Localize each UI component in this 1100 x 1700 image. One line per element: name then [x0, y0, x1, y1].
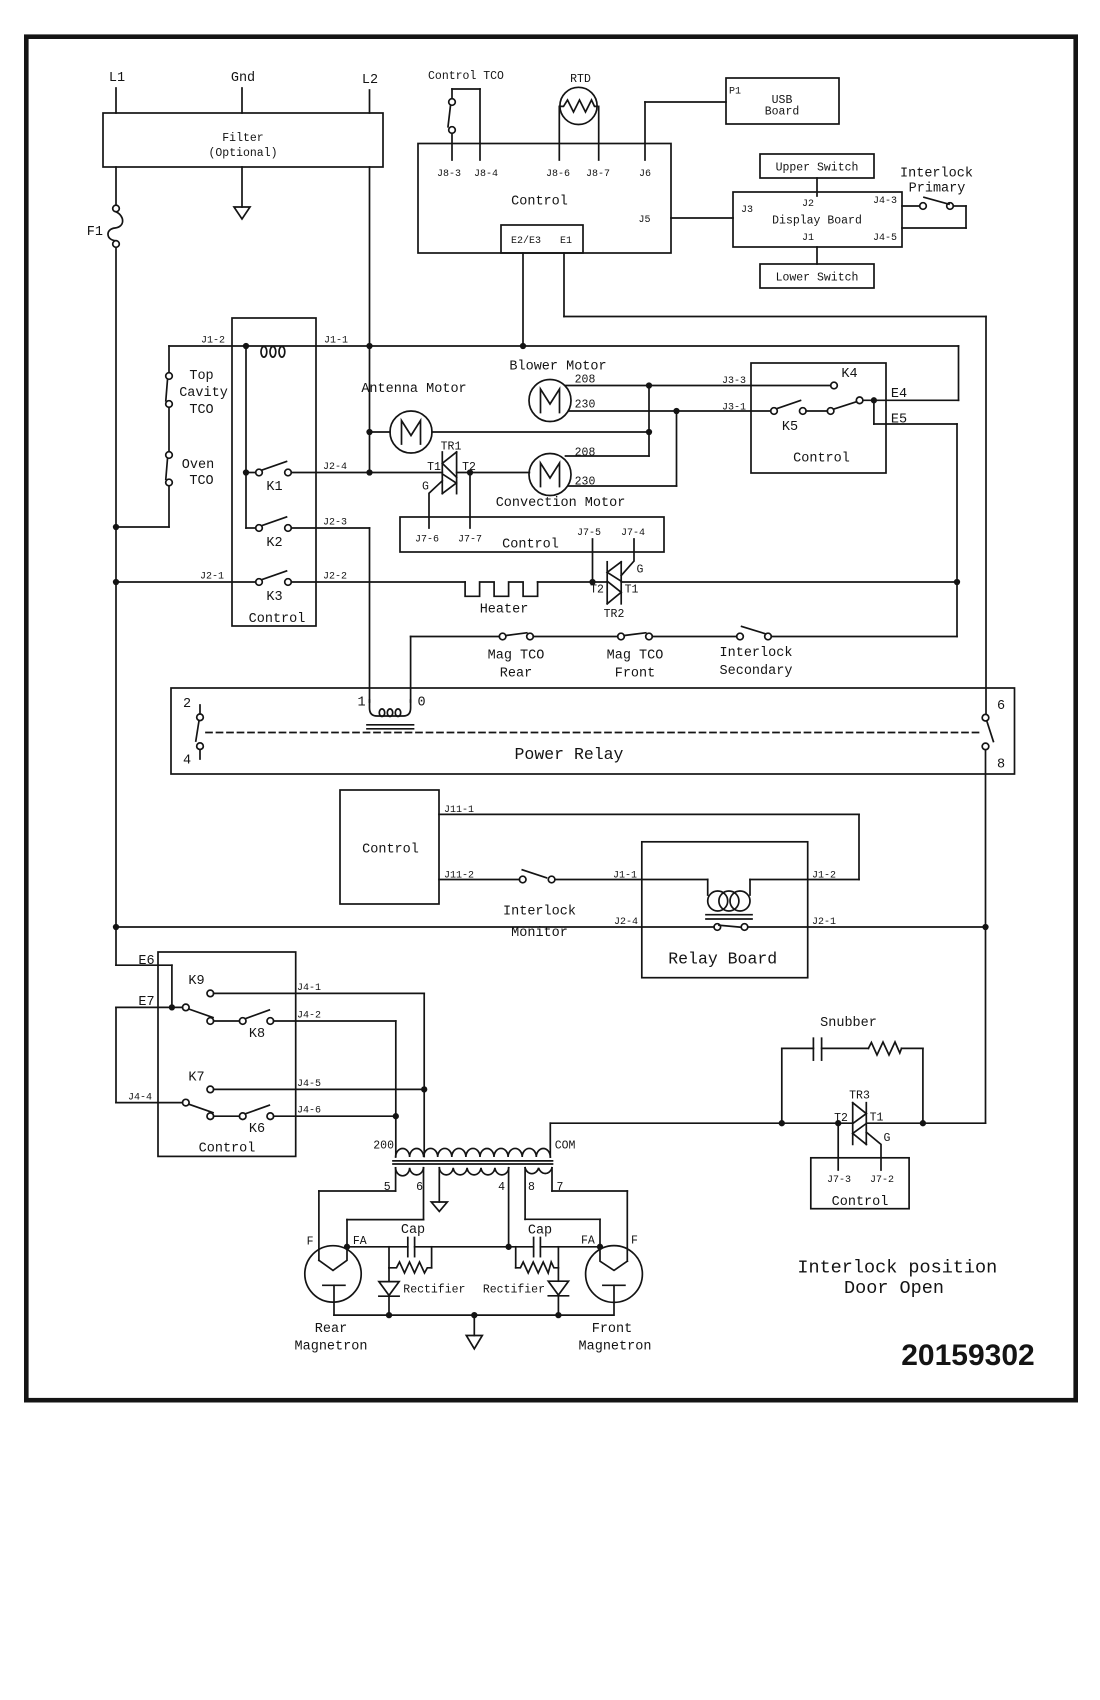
wire blower 208: [566, 374, 650, 387]
power relay box: [171, 688, 1015, 774]
wire relay coil pin 0 to mag TCO row: [411, 637, 500, 703]
bleed resistor (rear): [389, 1247, 432, 1273]
svg-text:Interlock: Interlock: [900, 167, 973, 182]
wire upper switch to display board: [816, 178, 818, 196]
wire E1 to power relay pin 6: [564, 253, 986, 714]
interlock monitor switch: [503, 870, 576, 941]
svg-text:Door Open: Door Open: [844, 1278, 944, 1299]
svg-text:Board: Board: [765, 106, 800, 119]
svg-text:230: 230: [575, 399, 596, 412]
wire J7-3: [837, 1123, 839, 1170]
node L2: [362, 73, 378, 113]
wire J4-1: [214, 993, 425, 1156]
snubber network: [782, 1016, 923, 1123]
junction dot snubber left: [780, 1121, 785, 1126]
wire TR3 T1 to pin8 net: [866, 1122, 985, 1124]
svg-text:K8: K8: [249, 1027, 265, 1042]
wire FA bus right: [540, 1246, 600, 1248]
svg-text:Control: Control: [793, 452, 850, 467]
relay contact K5: [771, 401, 806, 436]
junction dot rectifier rear on bus: [387, 1313, 392, 1318]
svg-text:200: 200: [373, 1140, 394, 1153]
svg-text:Relay Board: Relay Board: [668, 950, 777, 969]
power relay contact 2: [183, 697, 203, 721]
svg-text:E6: E6: [138, 954, 154, 969]
svg-text:J7-6: J7-6: [415, 535, 439, 546]
svg-text:J1-1: J1-1: [324, 336, 348, 347]
relay board primary coil: [708, 880, 750, 912]
wire relay board J1-2: [750, 879, 859, 881]
thermostat Mag TCO Rear: [488, 633, 545, 682]
junction dot J7-7 tap: [468, 470, 473, 475]
svg-text:E4: E4: [891, 387, 907, 402]
svg-text:F: F: [631, 1235, 638, 1248]
svg-text:J7-2: J7-2: [870, 1175, 894, 1186]
convection motor: [496, 454, 626, 512]
control box K6-K9: [158, 952, 296, 1157]
wire FA bus mid: [415, 1246, 534, 1248]
svg-text:TR3: TR3: [849, 1090, 870, 1103]
wire J2-2 to heater: [291, 581, 465, 583]
relay contact K8: [207, 1010, 274, 1042]
display board box: [733, 192, 902, 247]
wire J2-4 from L1: [116, 926, 714, 928]
svg-text:Control TCO: Control TCO: [428, 70, 504, 83]
relay contact K7: [188, 1071, 213, 1093]
rear magnetron: [295, 1235, 368, 1355]
svg-text:J3-1: J3-1: [722, 403, 746, 414]
svg-text:J3-3: J3-3: [722, 376, 746, 387]
USB board box: [726, 78, 839, 124]
border frame: [26, 37, 1075, 1401]
svg-text:J3: J3: [741, 205, 753, 216]
upper switch box: [760, 154, 874, 178]
junction dot E4/E5: [872, 398, 877, 403]
svg-text:Cavity: Cavity: [179, 386, 228, 401]
svg-text:FA: FA: [581, 1235, 595, 1248]
svg-text:Upper Switch: Upper Switch: [776, 162, 859, 175]
wire pin 5 to rear F: [319, 1168, 396, 1261]
wire TR2 T1 output: [621, 581, 957, 583]
wire J2-1 to pin 8 net: [748, 926, 986, 928]
interlock secondary switch: [720, 626, 793, 679]
cathode bus bottom: [334, 1314, 614, 1316]
wire E2/E3 down to J1-1 net: [522, 253, 524, 346]
svg-text:Interlock: Interlock: [720, 646, 793, 661]
svg-text:J2-3: J2-3: [323, 518, 347, 529]
svg-text:L1: L1: [109, 71, 125, 86]
svg-text:Antenna Motor: Antenna Motor: [361, 382, 466, 397]
svg-text:G: G: [884, 1132, 891, 1145]
oven TCO: [166, 452, 215, 489]
relay contact K6: [207, 1105, 274, 1137]
junction dot rear FA: [345, 1245, 350, 1250]
svg-text:F1: F1: [87, 225, 103, 240]
HV transformer secondary winding gnd-4: [439, 1168, 509, 1175]
control box K1-K3: [232, 318, 316, 627]
power relay contact 8: [982, 721, 1005, 773]
HV transformer core: [393, 1161, 553, 1164]
svg-text:Filter: Filter: [222, 132, 263, 145]
svg-text:Control: Control: [249, 612, 306, 627]
svg-text:Control: Control: [199, 1142, 256, 1157]
svg-text:J1-2: J1-2: [812, 871, 836, 882]
wire J2-3 to power relay coil pin 1: [291, 528, 369, 702]
relay board contact: [714, 924, 748, 931]
junction dot 208 bus top: [647, 383, 652, 388]
svg-text:J1: J1: [802, 233, 814, 244]
svg-text:P1: P1: [729, 87, 741, 98]
power relay contact 4: [183, 721, 203, 769]
svg-text:6: 6: [416, 1181, 423, 1194]
wire blower 230: [569, 399, 677, 412]
svg-text:7: 7: [557, 1181, 564, 1194]
svg-text:TR2: TR2: [604, 608, 625, 621]
svg-text:K5: K5: [782, 420, 798, 435]
power relay dashed link: [206, 732, 981, 734]
triac TR3: [834, 1090, 890, 1146]
svg-text:J7-3: J7-3: [827, 1175, 851, 1186]
svg-text:J5: J5: [638, 215, 650, 226]
svg-text:Rear: Rear: [315, 1322, 347, 1337]
svg-text:J2-4: J2-4: [323, 462, 347, 473]
svg-text:Front: Front: [615, 667, 656, 682]
wire E7: [116, 995, 183, 1010]
control box K4/K5: [751, 363, 886, 473]
svg-text:Rear: Rear: [500, 667, 532, 682]
junction dot L1/TCO: [114, 525, 119, 530]
svg-text:J2-1: J2-1: [200, 572, 224, 583]
wire E4: [863, 387, 959, 402]
svg-text:Monitor: Monitor: [511, 926, 568, 941]
svg-text:J4-5: J4-5: [873, 233, 897, 244]
junction dot pin8/J2-1: [983, 925, 988, 930]
front magnetron: [579, 1235, 652, 1355]
lower switch box: [760, 264, 874, 288]
wire J4-5: [214, 1088, 425, 1090]
svg-text:K7: K7: [188, 1071, 204, 1086]
svg-text:Mag TCO: Mag TCO: [607, 649, 664, 664]
svg-text:J7-7: J7-7: [458, 535, 482, 546]
junction dot front FA: [598, 1245, 603, 1250]
svg-text:Cap: Cap: [528, 1224, 552, 1239]
relay contact K4: [827, 367, 863, 414]
svg-text:230: 230: [575, 476, 596, 489]
junction dot rectifier front on bus: [556, 1313, 561, 1318]
junction dot J7-3: [836, 1121, 841, 1126]
HV transformer filament winding 8-7: [525, 1168, 552, 1174]
svg-text:(Optional): (Optional): [208, 147, 277, 160]
svg-text:Display Board: Display Board: [772, 215, 862, 228]
svg-text:J8-6: J8-6: [546, 169, 570, 180]
capacitor Cap (front): [528, 1224, 552, 1257]
wire coil to K1/K2 ladder: [245, 346, 247, 528]
wire J6 to USB board: [645, 102, 726, 160]
svg-text:Magnetron: Magnetron: [295, 1340, 368, 1355]
relay coil K (in control box): [261, 347, 285, 358]
svg-text:T1: T1: [625, 584, 639, 597]
svg-text:J7-5: J7-5: [577, 528, 601, 539]
svg-text:208: 208: [575, 447, 596, 460]
wire L2 vertical to J2-4: [369, 167, 371, 473]
svg-text:Convection Motor: Convection Motor: [496, 496, 626, 511]
svg-text:K3: K3: [266, 590, 282, 605]
fuse F1: [87, 205, 123, 247]
control board box (top): [418, 144, 671, 254]
ground symbol bottom: [466, 1315, 482, 1349]
wire FA bus left: [347, 1246, 408, 1248]
junction dot ground on bus: [472, 1313, 477, 1318]
wire J3-1: [677, 410, 771, 412]
svg-text:TCO: TCO: [189, 474, 213, 489]
svg-text:Secondary: Secondary: [720, 664, 793, 679]
junction dot L2/J1-1: [367, 344, 372, 349]
svg-text:K9: K9: [188, 974, 204, 989]
wire pin 8 down to COM: [985, 750, 987, 1123]
svg-text:8: 8: [528, 1181, 535, 1194]
junction dot K1 ladder: [244, 470, 249, 475]
svg-text:5: 5: [384, 1181, 391, 1194]
svg-text:RTD: RTD: [570, 73, 591, 86]
power relay coil: [370, 700, 411, 717]
svg-text:Control: Control: [502, 538, 559, 553]
wire J4-6: [274, 1115, 396, 1117]
wire TR3 gate to J7-2: [866, 1132, 881, 1170]
triac TR2: [590, 562, 643, 621]
connector E2/E3 E1 sub-box: [501, 225, 583, 253]
wire J7-7: [469, 473, 471, 529]
svg-text:J1-1: J1-1: [613, 871, 637, 882]
wire between TCOs: [533, 636, 617, 638]
svg-text:Front: Front: [592, 1322, 633, 1337]
svg-text:J2-2: J2-2: [323, 572, 347, 583]
svg-text:E5: E5: [891, 413, 907, 428]
rectifier (front): [483, 1247, 569, 1315]
svg-text:E2/E3: E2/E3: [511, 235, 541, 247]
svg-text:COM: COM: [555, 1140, 576, 1153]
wire convection 230: [569, 476, 677, 489]
svg-text:Control: Control: [511, 195, 568, 210]
relay contact K3: [256, 571, 292, 605]
vertical 208 bus: [648, 386, 650, 457]
svg-text:Gnd: Gnd: [231, 71, 255, 86]
wire antenna motor right: [432, 431, 649, 433]
svg-text:J7-4: J7-4: [621, 528, 645, 539]
junction dot L1/J2-4 relay board: [114, 925, 119, 930]
svg-text:Mag TCO: Mag TCO: [488, 649, 545, 664]
RTD sensor: [559, 73, 598, 160]
ground symbol below filter: [234, 167, 250, 219]
svg-text:Interlock position: Interlock position: [797, 1258, 997, 1279]
ground symbol secondary: [431, 1168, 447, 1212]
svg-text:TR1: TR1: [441, 441, 462, 454]
svg-text:208: 208: [575, 374, 596, 387]
HV transformer primary winding 200-COM: [396, 1148, 551, 1157]
wire E5: [874, 400, 957, 636]
svg-text:J2-1: J2-1: [812, 917, 836, 928]
control TCO switch: [428, 70, 504, 160]
svg-text:K6: K6: [249, 1122, 265, 1137]
relay contact K9: [188, 974, 213, 997]
wire antenna motor left: [370, 431, 391, 433]
capacitor Cap (rear): [401, 1223, 425, 1257]
svg-text:L2: L2: [362, 73, 378, 88]
wire J7-5 to TR2 T2: [592, 539, 594, 582]
wire TR1 T2 to convection motor: [457, 472, 530, 474]
wire interlock secondary to E5: [771, 636, 957, 638]
wire J2-4 to TR1: [370, 472, 443, 474]
transfer contact K7/K6 pivot: [183, 1099, 214, 1112]
svg-text:G: G: [422, 481, 429, 494]
transfer contact K9/K8 pivot: [183, 1004, 214, 1017]
svg-text:6: 6: [997, 699, 1005, 714]
svg-text:4: 4: [498, 1181, 505, 1194]
junction dot 208 bus antenna: [647, 430, 652, 435]
svg-text:Snubber: Snubber: [820, 1016, 877, 1031]
wire J3-3: [649, 385, 831, 387]
wire pin 7 to front F: [552, 1168, 627, 1261]
wire L1 main vertical: [115, 247, 117, 965]
junction dot 230 bus: [674, 409, 679, 414]
wire pin 6 to rear FA: [347, 1168, 424, 1247]
control box (middle): [400, 517, 664, 553]
svg-text:20159302: 20159302: [901, 1339, 1034, 1372]
svg-text:2: 2: [183, 697, 191, 712]
wire J2-1: [116, 581, 256, 583]
svg-text:J8-4: J8-4: [474, 169, 498, 180]
svg-text:Magnetron: Magnetron: [579, 1340, 652, 1355]
svg-text:G: G: [637, 564, 644, 577]
svg-text:K1: K1: [266, 480, 282, 495]
heater element: [465, 582, 537, 618]
relay contact K1: [246, 462, 291, 496]
wire J2-4: [291, 472, 369, 474]
wire TCO chain bottom to L1: [116, 486, 169, 527]
svg-text:J8-3: J8-3: [437, 169, 461, 180]
junction dot L1/J2-1: [114, 580, 119, 585]
svg-text:T1: T1: [427, 461, 441, 474]
svg-text:J2: J2: [802, 199, 814, 210]
svg-text:J4-5: J4-5: [297, 1079, 321, 1090]
filter (optional) box: [103, 113, 383, 167]
svg-text:TCO: TCO: [189, 403, 213, 418]
svg-text:E1: E1: [560, 236, 572, 247]
wire E6 from L1: [116, 954, 172, 1007]
wire between TCOs: [168, 407, 170, 451]
junction dot T1/E5: [955, 580, 960, 585]
svg-text:E7: E7: [138, 995, 154, 1010]
interlock primary switch: [900, 167, 973, 229]
svg-text:Heater: Heater: [480, 603, 529, 618]
svg-text:J6: J6: [639, 169, 651, 180]
wire J1 to lower switch: [816, 247, 818, 264]
node L1: [109, 71, 125, 113]
wire COM riser to TR3 net: [550, 1123, 852, 1157]
rectifier (rear): [379, 1268, 466, 1315]
svg-text:J4-1: J4-1: [297, 983, 321, 994]
junction dot L2/antenna motor: [367, 430, 372, 435]
svg-text:K2: K2: [266, 536, 282, 551]
power relay core: [367, 725, 414, 729]
wire monitor to relay board J1-1: [555, 879, 708, 881]
junction dot E2/E3 on J1-1 net: [521, 344, 526, 349]
bleed resistor (front): [516, 1247, 559, 1273]
svg-text:4: 4: [183, 754, 191, 769]
svg-text:Control: Control: [362, 843, 419, 858]
relay board box: [642, 842, 808, 978]
junction dot J4-2/J4-6: [394, 1114, 399, 1119]
wire TR1 gate to J7-6: [429, 481, 442, 528]
node Gnd: [231, 71, 255, 113]
junction dot J4-1/J4-5: [422, 1087, 427, 1092]
svg-text:Blower Motor: Blower Motor: [509, 360, 606, 375]
control box (J11): [340, 790, 439, 904]
wire pin 8 to front FA: [525, 1168, 600, 1247]
svg-text:Rectifier: Rectifier: [403, 1284, 465, 1297]
svg-text:Top: Top: [189, 369, 213, 384]
blower motor: [509, 360, 606, 422]
svg-text:1: 1: [357, 696, 365, 711]
svg-text:Primary: Primary: [909, 182, 966, 197]
svg-text:Interlock: Interlock: [503, 905, 576, 920]
svg-text:J4-2: J4-2: [297, 1011, 321, 1022]
svg-text:0: 0: [417, 696, 425, 711]
wire L1 filter to fuse: [115, 167, 117, 205]
svg-text:J8-7: J8-7: [586, 169, 610, 180]
svg-text:J4-6: J4-6: [297, 1106, 321, 1117]
wire E7 to J4-4: [116, 1007, 183, 1102]
wire pin 4 to FA bus: [508, 1168, 510, 1247]
wire J11-2 to interlock monitor: [439, 879, 519, 881]
svg-text:Cap: Cap: [401, 1223, 425, 1238]
wire K5 to K4 lower contact: [806, 410, 827, 412]
svg-text:Power Relay: Power Relay: [515, 745, 624, 764]
svg-text:Rectifier: Rectifier: [483, 1284, 545, 1297]
top cavity TCO: [166, 369, 228, 418]
svg-text:Oven: Oven: [182, 458, 214, 473]
control box (TR3): [811, 1158, 909, 1210]
svg-text:Lower Switch: Lower Switch: [776, 272, 859, 285]
wire convection 208: [566, 447, 650, 460]
wire heater to TR2: [538, 581, 608, 583]
svg-text:Control: Control: [832, 1195, 889, 1210]
svg-text:J4-3: J4-3: [873, 196, 897, 207]
vertical 230 bus: [676, 411, 678, 486]
junction dot snubber right: [921, 1121, 926, 1126]
svg-text:J4-4: J4-4: [128, 1093, 152, 1104]
triac TR1: [422, 441, 476, 494]
junction dot T2: [590, 580, 595, 585]
power relay contact 6: [982, 699, 1005, 721]
wire J1-2 J1-1 top net: [169, 346, 959, 400]
junction dot coil/J1-2: [244, 344, 249, 349]
wire to interlock secondary: [652, 636, 736, 638]
wire TCO chain top: [168, 346, 170, 373]
wire J11-1 to relay board J1-2: [439, 814, 859, 879]
svg-text:T2: T2: [590, 584, 604, 597]
svg-text:J1-2: J1-2: [201, 336, 225, 347]
thermostat Mag TCO Front: [607, 633, 664, 682]
junction dot 4 on FA bus: [506, 1245, 511, 1250]
junction dot E6/E7: [170, 1005, 175, 1010]
junction dot L2/J2-4: [367, 470, 372, 475]
antenna motor: [361, 382, 466, 453]
HV transformer filament winding 5-6: [396, 1168, 424, 1176]
svg-text:J2-4: J2-4: [614, 917, 638, 928]
svg-text:8: 8: [997, 758, 1005, 773]
wire J5 to display board: [671, 217, 733, 219]
wire J4-2: [274, 1021, 396, 1157]
